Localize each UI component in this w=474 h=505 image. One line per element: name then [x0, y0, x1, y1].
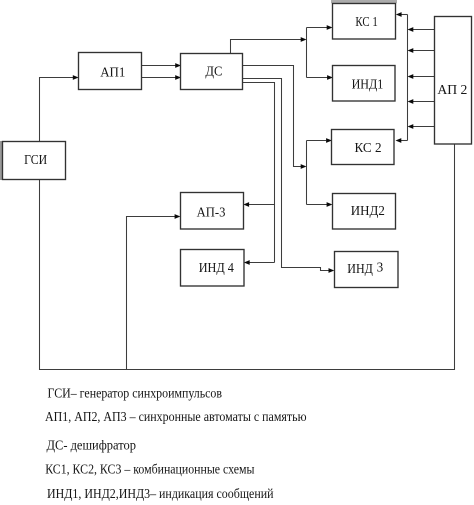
svg-text:3: 3: [377, 260, 384, 275]
svg-text:КС 2: КС 2: [355, 141, 382, 156]
svg-text:ГСИ: ГСИ: [24, 153, 47, 168]
svg-text:ИНД: ИНД: [347, 262, 373, 277]
svg-text:ИНД1: ИНД1: [352, 78, 384, 93]
svg-text:АП1: АП1: [100, 66, 125, 81]
svg-text:АП 2: АП 2: [437, 83, 467, 98]
svg-text:КС1, КС2, КС3 – комбинационны: КС1, КС2, КС3 – комбинационные схемы: [45, 462, 254, 477]
svg-text:ДС- дешифратор: ДС- дешифратор: [47, 438, 137, 453]
svg-text:ИНД 4: ИНД 4: [199, 261, 234, 276]
svg-text:ГСИ– генератор синхроимпульсо: ГСИ– генератор синхроимпульсов: [48, 385, 223, 400]
svg-text:КС 1: КС 1: [355, 15, 377, 30]
svg-text:ИНД2: ИНД2: [351, 204, 385, 219]
svg-text:АП1, АП2, АП3 – синхронные ав: АП1, АП2, АП3 – синхронные автоматы с па…: [45, 409, 307, 424]
svg-text:ИНД1, ИНД2,ИНД3– индикация со: ИНД1, ИНД2,ИНД3– индикация сообщений: [47, 486, 274, 501]
svg-text:АП-3: АП-3: [197, 206, 226, 221]
svg-text:ДС: ДС: [205, 65, 222, 80]
